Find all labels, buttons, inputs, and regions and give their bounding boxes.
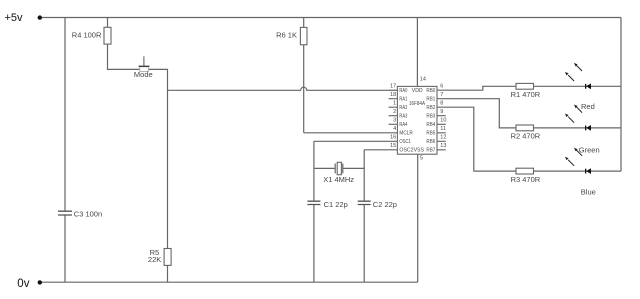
svg-text:16: 16	[390, 135, 396, 141]
svg-text:R2 470R: R2 470R	[511, 132, 541, 141]
svg-text:5: 5	[420, 156, 423, 162]
svg-text:OSC1: OSC1	[399, 139, 411, 145]
svg-text:9: 9	[440, 109, 443, 115]
svg-text:C1 22p: C1 22p	[324, 200, 348, 209]
svg-text:RB5: RB5	[426, 131, 435, 137]
svg-text:RA4: RA4	[399, 122, 407, 128]
svg-text:R1 470R: R1 470R	[511, 90, 541, 99]
svg-text:X1 4MHz: X1 4MHz	[323, 175, 354, 184]
svg-text:Mode: Mode	[134, 70, 153, 79]
svg-text:C3 100n: C3 100n	[74, 210, 102, 219]
svg-text:R6 1K: R6 1K	[276, 31, 297, 40]
svg-text:22K: 22K	[148, 255, 161, 264]
svg-text:3: 3	[393, 118, 396, 124]
svg-text:16F84A: 16F84A	[409, 101, 425, 107]
svg-text:18: 18	[390, 92, 396, 98]
svg-text:4: 4	[393, 126, 396, 132]
svg-text:RA1: RA1	[399, 97, 407, 103]
svg-text:Green: Green	[579, 145, 600, 154]
svg-text:RA3: RA3	[399, 114, 407, 120]
svg-text:RA2: RA2	[399, 105, 407, 111]
svg-text:RB2: RB2	[426, 105, 435, 111]
svg-text:RB3: RB3	[426, 114, 435, 120]
svg-text:2: 2	[393, 109, 396, 115]
svg-text:17: 17	[390, 84, 396, 90]
svg-text:+5v: +5v	[5, 12, 24, 24]
svg-text:R3 470R: R3 470R	[511, 175, 541, 184]
svg-text:Red: Red	[581, 102, 595, 111]
svg-text:15: 15	[390, 143, 396, 149]
svg-text:6: 6	[440, 84, 443, 90]
svg-text:OSC2VSS: OSC2VSS	[399, 148, 424, 154]
svg-text:RB0: RB0	[426, 88, 435, 94]
svg-text:12: 12	[440, 135, 446, 141]
svg-text:C2 22p: C2 22p	[373, 200, 397, 209]
svg-text:11: 11	[440, 126, 446, 132]
svg-text:Blue: Blue	[581, 188, 596, 197]
svg-text:VDD: VDD	[412, 88, 423, 94]
svg-text:RB4: RB4	[426, 122, 435, 128]
svg-text:RB1: RB1	[426, 97, 435, 103]
svg-text:RB6: RB6	[426, 139, 435, 145]
svg-text:RA0: RA0	[399, 88, 407, 94]
svg-text:1: 1	[393, 101, 396, 107]
svg-text:13: 13	[440, 143, 446, 149]
svg-text:R4 100R: R4 100R	[72, 30, 102, 39]
svg-text:RB7: RB7	[426, 148, 435, 154]
svg-text:8: 8	[440, 101, 443, 107]
svg-text:10: 10	[440, 118, 446, 124]
svg-text:7: 7	[440, 92, 443, 98]
svg-text:14: 14	[420, 76, 426, 82]
svg-text:0v: 0v	[17, 278, 29, 290]
svg-text:MCLR: MCLR	[399, 131, 412, 137]
